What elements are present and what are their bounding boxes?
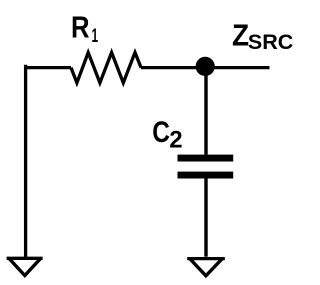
wire: resistor to right end through node bbox=[141, 66, 270, 69]
capacitor C2 top plate bbox=[178, 155, 234, 162]
label C2 bbox=[152, 115, 182, 154]
svg-text:C: C bbox=[152, 115, 170, 149]
resistor R1 bbox=[71, 53, 141, 83]
svg-text:R: R bbox=[71, 11, 90, 44]
ground (left) bbox=[7, 258, 43, 275]
svg-text:Z: Z bbox=[232, 18, 249, 53]
label R1 bbox=[71, 11, 98, 47]
svg-text:1: 1 bbox=[92, 25, 99, 47]
label ZSRC bbox=[232, 18, 293, 54]
ground (right) bbox=[187, 259, 225, 276]
capacitor C2 bottom plate bbox=[178, 172, 234, 179]
wire: left vertical down to ground bbox=[24, 65, 27, 257]
wire: top-left horizontal from corner to resistor bbox=[24, 66, 71, 69]
node: junction dot bbox=[196, 57, 215, 76]
wire: node down to capacitor bbox=[204, 66, 207, 155]
wire: capacitor down to ground bbox=[204, 178, 207, 257]
svg-text:2: 2 bbox=[169, 127, 182, 154]
svg-text:SRC: SRC bbox=[248, 30, 293, 54]
